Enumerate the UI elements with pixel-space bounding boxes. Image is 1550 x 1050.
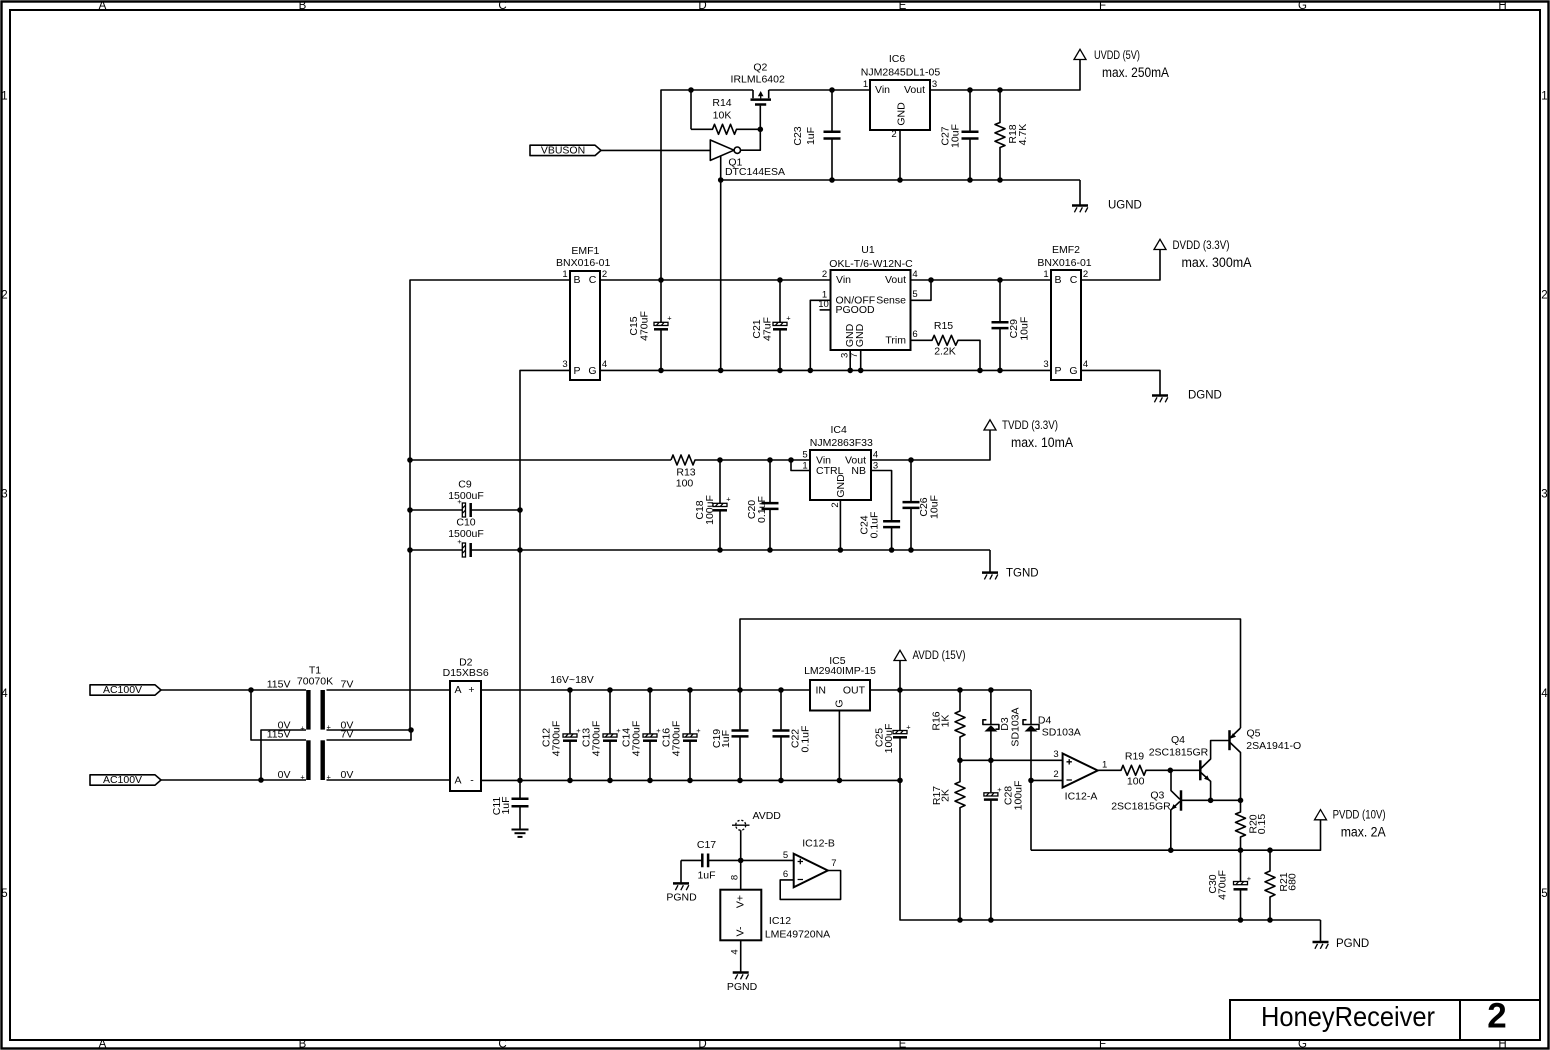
svg-text:R14: R14 [712, 97, 731, 109]
wire U1 ON/OFF pin1 to ground [810, 300, 830, 370]
svg-text:2: 2 [1, 290, 7, 302]
node VBUSON input flag [530, 144, 601, 156]
svg-text:LME49720NA: LME49720NA [765, 929, 830, 941]
wire 5V VBUS net: vertical x=661 and top rail to Q2 [661, 90, 753, 280]
svg-text:Q4: Q4 [1171, 734, 1185, 746]
svg-text:4: 4 [1, 688, 8, 700]
svg-text:Trim: Trim [885, 334, 906, 346]
svg-text:115V: 115V [267, 679, 291, 691]
svg-text:3: 3 [932, 79, 937, 90]
svg-text:DTC144ESA: DTC144ESA [725, 166, 785, 178]
transistor Q3 2SC1815GR [1111, 770, 1210, 850]
svg-text:Sense: Sense [876, 294, 906, 306]
svg-text:U1: U1 [861, 244, 875, 256]
svg-text:4: 4 [1083, 359, 1088, 370]
svg-text:C: C [498, 1039, 506, 1050]
svg-text:70070K: 70070K [297, 676, 333, 688]
svg-text:E: E [899, 0, 907, 12]
svg-text:C: C [1070, 274, 1078, 286]
svg-text:C: C [589, 274, 597, 286]
resistor R19 100 [1098, 751, 1171, 788]
transformer T1 70070K [267, 665, 354, 782]
svg-text:B: B [1054, 274, 1061, 286]
resistor R14 [691, 97, 760, 134]
ground PGND at IC12 [727, 973, 758, 994]
svg-text:2: 2 [1083, 269, 1088, 280]
wire IC4 CTRL tie to Vin [791, 460, 810, 471]
svg-text:0.1uF: 0.1uF [868, 512, 880, 539]
svg-text:F: F [1099, 1039, 1106, 1050]
svg-text:D: D [698, 0, 706, 12]
node AC100V input flag 2 [90, 774, 161, 786]
diode D4 SD103A [1023, 690, 1081, 780]
svg-text:C10: C10 [456, 517, 475, 529]
svg-text:SD103A: SD103A [1010, 707, 1022, 746]
capacitor C17 1uF [681, 839, 741, 882]
capacitor C25 100uF [874, 690, 912, 780]
svg-text:10uF: 10uF [1019, 317, 1031, 341]
bridge rectifier D2 D15XBS6 [443, 657, 489, 792]
capacitor C19 1uF [711, 690, 749, 780]
junction dots bottom-left [248, 687, 903, 783]
svg-text:Q2: Q2 [753, 62, 767, 74]
resistor R13 100 [671, 455, 810, 490]
resistor R17 2K [931, 760, 965, 920]
wire R14 left drop [690, 90, 692, 129]
svg-text:2: 2 [891, 129, 896, 140]
transistor Q1 DTC144ESA digital inverter [710, 129, 785, 180]
svg-text:E: E [899, 1039, 907, 1050]
resistor R20 0.15 [1236, 800, 1269, 850]
svg-text:max. 2A: max. 2A [1341, 825, 1386, 840]
svg-text:B: B [573, 274, 580, 286]
svg-text:4.7K: 4.7K [1017, 124, 1029, 146]
svg-text:Vout: Vout [904, 84, 925, 96]
svg-text:D15XBS6: D15XBS6 [443, 667, 489, 679]
svg-text:+: + [1247, 874, 1252, 883]
svg-text:5: 5 [1, 888, 7, 900]
svg-text:+: + [997, 785, 1002, 794]
junction dots row3 [407, 457, 914, 553]
svg-text:AC100V: AC100V [103, 774, 142, 786]
wire EMF1 pin1 to x410 vertical [410, 280, 570, 730]
svg-text:100: 100 [676, 478, 694, 490]
svg-text:5: 5 [802, 449, 807, 460]
svg-text:IRLML6402: IRLML6402 [731, 74, 785, 86]
svg-text:2SC1815GR: 2SC1815GR [1149, 747, 1209, 759]
svg-text:OUT: OUT [843, 684, 866, 696]
svg-text:GND: GND [835, 474, 847, 498]
svg-text:2: 2 [1053, 769, 1058, 780]
svg-text:G: G [1298, 0, 1307, 12]
svg-text:G: G [588, 365, 596, 377]
svg-text:PGND: PGND [727, 981, 758, 993]
svg-text:EMF1: EMF1 [571, 245, 599, 257]
filter EMF2 BNX016-01 [1037, 244, 1091, 380]
svg-text:F: F [1099, 0, 1106, 12]
svg-text:2SA1941-O: 2SA1941-O [1246, 740, 1301, 752]
capacitor C11 1uF to earth [491, 780, 529, 829]
svg-text:TVDD (3.3V): TVDD (3.3V) [1002, 420, 1058, 432]
capacitor C22 0.1uF [773, 690, 812, 780]
regulator U1 OKL-T/6-W12N-C [829, 244, 913, 350]
resistor R18 4.7K [995, 90, 1029, 180]
svg-text:R19: R19 [1125, 751, 1144, 763]
svg-text:1uF: 1uF [805, 127, 817, 145]
capacitor C29 10uF [992, 280, 1031, 370]
resistor R15 2.2K on Trim [911, 320, 981, 370]
capacitor C23 1uF [792, 90, 841, 180]
svg-text:2: 2 [822, 269, 827, 280]
svg-text:6: 6 [783, 869, 788, 880]
svg-text:IC12-A: IC12-A [1065, 791, 1098, 803]
svg-text:3: 3 [1053, 749, 1058, 760]
svg-text:+: + [786, 314, 791, 323]
ground PGND output [1313, 938, 1370, 950]
svg-text:GND: GND [896, 102, 908, 126]
ground UGND [1072, 180, 1142, 212]
wire EMF2 pin2 to DVDD [1081, 250, 1160, 281]
wire secondary 0V bottom to bridge [327, 779, 451, 781]
wire U1 Vout to EMF2 [911, 279, 1052, 281]
svg-text:1uF: 1uF [697, 870, 715, 882]
svg-text:PVDD (10V): PVDD (10V) [1333, 810, 1386, 822]
junction dots row2 [658, 277, 1003, 373]
wire secondary 7V top to bridge [327, 689, 451, 691]
wire IC12-B output feedback loop to pin 6 [780, 871, 840, 900]
svg-text:470uF: 470uF [639, 311, 651, 341]
wire op-amp pin2 feedback from PVDD [1031, 780, 1063, 850]
resistor R21 680 [1265, 850, 1299, 920]
svg-text:10uF: 10uF [929, 495, 941, 519]
svg-text:AVDD (15V): AVDD (15V) [913, 650, 966, 662]
svg-text:C17: C17 [697, 839, 716, 851]
wire C25 node down to PGND rail [900, 780, 1321, 920]
svg-text:4: 4 [730, 949, 741, 954]
capacitor C27 10uF [940, 90, 979, 180]
diode D3 SD103A [983, 690, 1022, 760]
svg-text:C: C [498, 0, 506, 12]
svg-text:680: 680 [1287, 873, 1299, 891]
svg-text:6: 6 [912, 329, 917, 340]
wire EMF2 pin4 to DGND [1081, 370, 1160, 394]
svg-text:+: + [300, 773, 305, 782]
svg-text:2: 2 [602, 269, 607, 280]
svg-text:0V: 0V [278, 769, 291, 781]
svg-text:D: D [698, 1039, 706, 1050]
svg-text:1uF: 1uF [720, 730, 732, 748]
svg-text:100uF: 100uF [1013, 781, 1025, 811]
svg-text:max. 300mA: max. 300mA [1182, 255, 1252, 270]
wire rectified - rail [481, 779, 900, 781]
wire UGND rail row1 [721, 179, 1080, 181]
svg-text:IC12: IC12 [769, 915, 791, 927]
svg-text:C23: C23 [792, 126, 804, 145]
ground DGND [1152, 389, 1222, 402]
power PVDD (10V) [1315, 810, 1386, 840]
svg-text:V-: V- [735, 926, 747, 936]
svg-text:A: A [454, 775, 461, 787]
wire EMF1 pin2 to U1 Vin [600, 279, 831, 281]
svg-text:Q5: Q5 [1247, 728, 1261, 740]
capacitor C13 4700uF [581, 690, 622, 780]
svg-text:1: 1 [1043, 269, 1048, 280]
svg-text:LM2940IMP-15: LM2940IMP-15 [804, 665, 876, 677]
ground PGND at C17 [666, 860, 697, 903]
ground TGND [982, 550, 1039, 580]
wire IC6 Vout to UVDD [930, 60, 1080, 91]
capacitor C30 470uF [1207, 850, 1252, 920]
svg-text:7: 7 [831, 858, 836, 869]
svg-text:UVDD (5V): UVDD (5V) [1094, 50, 1140, 62]
capacitor C26 10uF [903, 460, 941, 550]
svg-text:0.1uF: 0.1uF [800, 726, 812, 753]
power TVDD (3.3V) [984, 420, 1073, 450]
transistor Q5 2SA1941-O [1230, 728, 1302, 801]
capacitor C10 1500uF [410, 517, 520, 558]
svg-text:max. 10mA: max. 10mA [1011, 435, 1073, 450]
svg-text:B: B [299, 1039, 307, 1050]
svg-text:0.1uF: 0.1uF [756, 496, 768, 523]
svg-text:100uF: 100uF [704, 495, 716, 525]
wire U1 PGOOD pin10 stub [820, 309, 831, 311]
wire Q2 drain to IC6 Vin [769, 89, 870, 91]
svg-text:AVDD: AVDD [753, 810, 782, 822]
svg-text:DVDD (3.3V): DVDD (3.3V) [1173, 240, 1230, 252]
svg-text:PGND: PGND [666, 892, 697, 904]
op-amp IC12-B [794, 838, 835, 888]
svg-text:2K: 2K [940, 789, 952, 802]
svg-text:1uF: 1uF [500, 796, 512, 814]
power UVDD (5V) [1074, 49, 1169, 80]
svg-text:H: H [1498, 0, 1506, 12]
svg-text:3: 3 [1043, 359, 1048, 370]
wire AC line2 to primary [161, 779, 306, 781]
svg-text:P: P [1054, 365, 1061, 377]
svg-text:2: 2 [1541, 290, 1547, 302]
capacitor C28 100uF [984, 760, 1025, 920]
transistor Q2 P-MOSFET IRLML6402 [731, 62, 785, 130]
svg-text:IC6: IC6 [889, 53, 906, 65]
wire TGND rail row3 [520, 549, 990, 551]
junction dots output stage [957, 687, 1273, 923]
svg-text:4700uF: 4700uF [631, 721, 643, 757]
wire VBUSON to Q1 input [601, 149, 710, 151]
svg-text:A: A [99, 0, 107, 12]
transistor Q4 2SC1815GR [1149, 734, 1230, 800]
regulator IC5 LM2940IMP-15 [804, 655, 876, 711]
wire IC4 Vout to TVDD [871, 430, 990, 460]
power AVDD (15V) [894, 650, 966, 690]
capacitor C9 1500uF [410, 479, 520, 518]
svg-text:NJM2845DL1-05: NJM2845DL1-05 [861, 67, 941, 79]
svg-text:IC4: IC4 [831, 424, 848, 436]
svg-text:+: + [696, 726, 701, 735]
svg-text:2.2K: 2.2K [934, 346, 956, 358]
wire IC12-B + input [741, 859, 794, 861]
wire IC4 GND pin2 [839, 500, 841, 550]
svg-text:IN: IN [816, 684, 827, 696]
resistor R16 1K [931, 690, 966, 760]
wire secondary centre tap join [327, 730, 412, 740]
svg-text:2SC1815GR: 2SC1815GR [1111, 801, 1171, 813]
capacitor C15 470uF [628, 280, 672, 370]
wire IC12 pin4 to ground [740, 940, 742, 972]
svg-text:1: 1 [562, 269, 567, 280]
svg-text:4: 4 [912, 269, 917, 280]
svg-text:100uF: 100uF [883, 724, 895, 754]
svg-text:1K: 1K [940, 715, 952, 728]
svg-text:UGND: UGND [1108, 199, 1142, 211]
svg-text:VBUSON: VBUSON [541, 144, 585, 156]
svg-text:HoneyReceiver: HoneyReceiver [1261, 1001, 1435, 1032]
wire IC5 G pin to rail [838, 711, 840, 781]
svg-text:SD103A: SD103A [1042, 726, 1081, 738]
svg-text:TGND: TGND [1006, 568, 1039, 580]
capacitor C16 4700uF [661, 690, 702, 780]
wire Q1 emitter down to DGND rail [720, 180, 722, 370]
svg-text:PGOOD: PGOOD [836, 304, 876, 316]
svg-text:2: 2 [830, 502, 841, 507]
capacitor C18 100uF [694, 460, 731, 550]
svg-text:NJM2863F33: NJM2863F33 [810, 437, 873, 449]
svg-text:V+: V+ [735, 895, 747, 908]
wire rectified + rail to IC5 [481, 689, 810, 691]
svg-text:P: P [573, 365, 580, 377]
svg-text:AC100V: AC100V [103, 684, 142, 696]
svg-text:-: - [470, 775, 474, 787]
op-amp IC12-A [1063, 754, 1098, 803]
wire AC line1 to primary winding2 [251, 690, 306, 740]
svg-text:1: 1 [1541, 91, 1547, 103]
svg-text:+: + [300, 723, 305, 732]
svg-text:+: + [667, 314, 672, 323]
wire TVDD input rail row3 [410, 459, 671, 461]
power DVDD (3.3V) [1154, 239, 1252, 269]
svg-text:Vin: Vin [875, 84, 890, 96]
svg-text:G: G [833, 699, 845, 707]
wire IC6 GND pin to rail [899, 130, 901, 180]
svg-text:115V: 115V [267, 729, 291, 741]
svg-text:4700uF: 4700uF [591, 721, 603, 757]
svg-text:+: + [468, 684, 474, 696]
wire Q4 emitter node to R20 top [1211, 799, 1241, 801]
wire divider mid node to op-amp pin3 [960, 759, 1063, 761]
svg-text:47uF: 47uF [762, 317, 774, 341]
svg-text:NB: NB [851, 465, 866, 477]
op-amp IC12 LME49720NA power block [720, 890, 830, 941]
capacitor C20 0.1uF [746, 460, 779, 550]
svg-text:max. 250mA: max. 250mA [1102, 65, 1169, 80]
wire feedback 16V rail to Q5 emitter [740, 619, 1241, 728]
svg-text:BNX016-01: BNX016-01 [1037, 257, 1091, 269]
svg-text:5: 5 [1541, 888, 1547, 900]
svg-text:D4: D4 [1038, 715, 1052, 727]
svg-text:Vin: Vin [836, 274, 851, 286]
svg-text:470uF: 470uF [1217, 870, 1229, 900]
svg-text:OKL-T/6-W12N-C: OKL-T/6-W12N-C [829, 258, 913, 270]
svg-text:BNX016-01: BNX016-01 [556, 257, 610, 269]
junction dot AVDD node [738, 858, 744, 864]
svg-text:4: 4 [873, 449, 878, 460]
svg-text:+: + [726, 495, 731, 504]
svg-text:DGND: DGND [1188, 389, 1222, 401]
capacitor C21 47uF [751, 280, 791, 370]
svg-text:16V~18V: 16V~18V [550, 674, 594, 686]
svg-text:B: B [299, 0, 307, 12]
svg-text:1500uF: 1500uF [448, 490, 484, 502]
svg-text:A: A [454, 684, 461, 696]
svg-text:1: 1 [863, 79, 868, 90]
svg-text:R15: R15 [934, 320, 953, 332]
wire DGND rail row2 [600, 369, 1051, 371]
regulator IC4 NJM2863F33 [810, 424, 873, 500]
wire IC5 OUT to AVDD rail [870, 689, 1031, 691]
wire PVDD output rail [1031, 820, 1321, 850]
svg-text:GND: GND [854, 323, 866, 347]
junction dots row1 [688, 87, 1003, 183]
svg-text:PGND: PGND [1336, 938, 1369, 950]
capacitor C12 4700uF [541, 690, 582, 780]
wire U1 Sense tie to Vout [911, 280, 932, 300]
wire IC4 NB to C24 [871, 471, 892, 521]
wire AC line1 to primary [161, 689, 306, 691]
svg-text:1500uF: 1500uF [448, 528, 484, 540]
svg-text:3: 3 [562, 359, 567, 370]
svg-text:4: 4 [1541, 688, 1548, 700]
svg-text:C9: C9 [458, 479, 472, 491]
capacitor C14 4700uF [621, 690, 662, 780]
svg-text:IC12-B: IC12-B [802, 838, 835, 850]
svg-text:2: 2 [1487, 997, 1506, 1036]
svg-text:A: A [99, 1039, 107, 1050]
wire PGND rail drop [1320, 920, 1322, 941]
capacitor C24 0.1uF [858, 512, 900, 550]
wire AC line2 to primary winding1 0V [261, 730, 306, 780]
svg-text:3: 3 [1, 489, 7, 501]
svg-text:Vout: Vout [885, 274, 906, 286]
filter EMF1 BNX016-01 [556, 245, 610, 380]
wire EMF1 pin3 to x520 vertical [520, 370, 570, 780]
svg-text:4: 4 [602, 359, 607, 370]
ground earth symbol under C11 [512, 830, 529, 837]
node AC100V input flag 1 [90, 684, 161, 696]
svg-text:7V: 7V [341, 679, 354, 691]
svg-text:3: 3 [1541, 489, 1547, 501]
svg-text:1: 1 [1, 91, 7, 103]
power AVDD flag for IC12 [732, 810, 781, 890]
svg-text:100: 100 [1127, 776, 1145, 788]
svg-text:5: 5 [912, 289, 917, 300]
svg-text:0.15: 0.15 [1256, 814, 1268, 835]
svg-text:1: 1 [1102, 760, 1107, 771]
svg-text:4700uF: 4700uF [551, 721, 563, 757]
svg-text:8: 8 [730, 875, 741, 880]
svg-text:5: 5 [783, 850, 788, 861]
svg-text:G: G [1069, 365, 1077, 377]
svg-text:10uF: 10uF [950, 124, 962, 148]
svg-text:EMF2: EMF2 [1052, 244, 1080, 256]
svg-text:10K: 10K [713, 109, 732, 121]
op-amp IC6 NJM2845DL1-05 regulator box [861, 53, 941, 130]
svg-text:+: + [906, 723, 911, 732]
wire U1 GND pins 3,7 [850, 350, 861, 370]
svg-text:4700uF: 4700uF [671, 721, 683, 757]
